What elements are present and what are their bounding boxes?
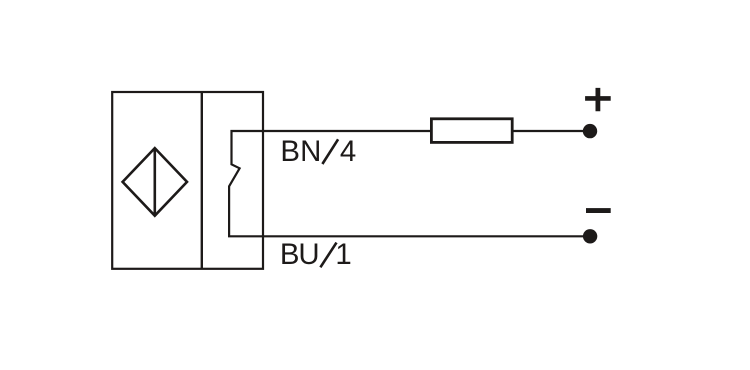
label BN/4 slash: [322, 139, 338, 164]
load resistor RL: [431, 119, 512, 143]
sensor symbol diamond: [123, 148, 187, 216]
label BU/1: [280, 238, 352, 271]
label BN/4: [280, 135, 356, 168]
wire from load resistor to plus terminal: [513, 130, 584, 132]
minus sign: [586, 208, 611, 213]
svg-text:B: B: [280, 135, 300, 168]
svg-text:B: B: [280, 238, 300, 271]
terminal dot minus: [583, 229, 597, 243]
sensor symbol diamond vertical line: [154, 148, 157, 216]
svg-text:N: N: [300, 135, 321, 168]
svg-text:U: U: [298, 238, 319, 271]
svg-text:4: 4: [340, 135, 356, 168]
plus sign: [585, 88, 611, 111]
label BU/1 slash: [320, 243, 336, 268]
svg-text:1: 1: [335, 238, 351, 271]
wire BN/4 with switch contact S1 and wire BU/1: [229, 131, 583, 236]
sensor body divider: [201, 92, 203, 269]
sensor body outline U1: [112, 92, 263, 269]
terminal dot plus: [583, 124, 597, 138]
